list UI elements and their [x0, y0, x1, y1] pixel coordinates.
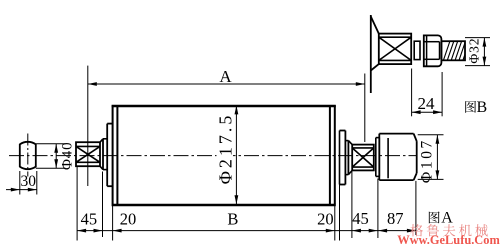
- washer/spacer: [375, 138, 377, 177]
- right hub: [340, 130, 346, 132]
- dimension Phi40: [36, 143, 66, 145]
- dimension 24: [411, 69, 413, 117]
- right collar with chamfers: [348, 141, 352, 145]
- main horizontal centerline: [9, 155, 417, 157]
- dimension Phi217.5: [235, 105, 237, 204]
- dimension Phi107: [418, 134, 444, 136]
- svg-text:Φ107: Φ107: [419, 138, 436, 183]
- svg-text:20: 20: [120, 210, 137, 229]
- label fig A: [429, 211, 440, 223]
- cone diagonals: [371, 17, 379, 34]
- right bearing (X box): [352, 145, 374, 171]
- left collar with chamfers: [100, 139, 103, 142]
- figB round nut: [424, 35, 442, 66]
- left hub: [106, 124, 108, 187]
- svg-text:Φ40: Φ40: [60, 142, 76, 170]
- dimension A: [87, 66, 89, 186]
- extension lines bottom: [76, 166, 78, 240]
- chain arrowheads: [77, 229, 86, 233]
- svg-text:24: 24: [418, 94, 436, 113]
- coupling cylinder Phi107: [378, 134, 380, 181]
- dimension 30: [19, 171, 21, 195]
- left bearing (X box): [76, 142, 100, 166]
- figB bearing X box: [379, 34, 411, 65]
- svg-text:Www.GeLufu.Com: Www.GeLufu.Com: [397, 233, 500, 247]
- figB threaded rod (hatched): [441, 41, 465, 60]
- dimension Phi32: [465, 37, 490, 39]
- svg-text:B: B: [476, 99, 487, 116]
- bottom dimension chain line: [77, 230, 416, 232]
- svg-text:Φ217.5: Φ217.5: [216, 113, 236, 185]
- svg-text:20: 20: [317, 209, 334, 228]
- svg-text:A: A: [441, 209, 453, 226]
- figB neck: [414, 41, 420, 59]
- svg-text:45: 45: [81, 210, 98, 229]
- obround vertical centerline: [27, 134, 29, 177]
- red watermark line 1: [410, 224, 423, 236]
- drum left face (double line): [112, 105, 114, 204]
- drum shell: [112, 105, 336, 107]
- svg-text:Φ32: Φ32: [466, 38, 481, 64]
- label fig B: [465, 101, 476, 113]
- svg-text:A: A: [219, 67, 232, 86]
- shaft end view: obround with flats (30 across flats): [20, 142, 36, 169]
- svg-text:B: B: [227, 209, 238, 228]
- svg-text:45: 45: [352, 209, 369, 228]
- svg-text:30: 30: [20, 173, 36, 190]
- drum right face (double line): [329, 105, 331, 204]
- svg-text:87: 87: [387, 209, 404, 228]
- detail figure B: flange line: [370, 15, 372, 93]
